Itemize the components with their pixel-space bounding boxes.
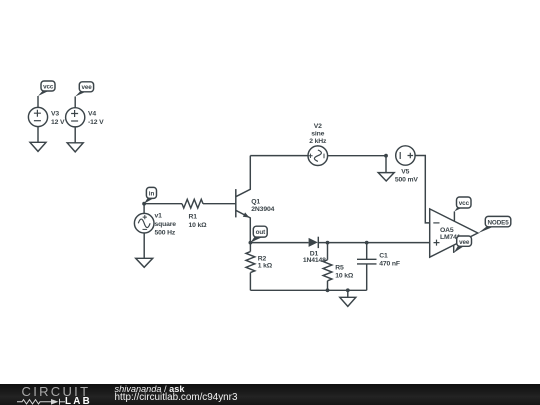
svg-text:V2: V2 xyxy=(314,123,322,130)
svg-text:v1: v1 xyxy=(155,213,163,220)
svg-text:NODE5: NODE5 xyxy=(487,219,509,226)
svg-text:12 V: 12 V xyxy=(51,119,65,126)
svg-text:470 nF: 470 nF xyxy=(379,261,400,268)
svg-text:in: in xyxy=(149,190,155,197)
svg-text:R1: R1 xyxy=(189,214,198,221)
svg-text:sine: sine xyxy=(311,130,324,137)
svg-text:1N4148: 1N4148 xyxy=(303,257,326,264)
svg-text:R5: R5 xyxy=(335,264,344,271)
svg-text:-12 V: -12 V xyxy=(88,119,104,126)
svg-text:out: out xyxy=(256,229,266,236)
svg-text:vcc: vcc xyxy=(43,83,54,90)
svg-text:500 mV: 500 mV xyxy=(395,176,419,183)
svg-text:2N3904: 2N3904 xyxy=(251,206,274,213)
svg-text:10 kΩ: 10 kΩ xyxy=(189,222,208,229)
svg-text:R2: R2 xyxy=(258,255,267,262)
svg-text:V5: V5 xyxy=(401,168,409,175)
svg-text:500 Hz: 500 Hz xyxy=(155,230,176,237)
svg-text:C1: C1 xyxy=(379,252,388,259)
svg-text:vee: vee xyxy=(81,84,92,91)
svg-text:10 kΩ: 10 kΩ xyxy=(335,273,354,280)
svg-text:vee: vee xyxy=(459,239,470,246)
svg-text:1 kΩ: 1 kΩ xyxy=(258,263,273,270)
svg-text:Q1: Q1 xyxy=(251,198,260,205)
svg-text:OA5: OA5 xyxy=(440,227,454,234)
svg-text:square: square xyxy=(155,221,177,228)
svg-text:V4: V4 xyxy=(88,111,96,118)
svg-text:2 kHz: 2 kHz xyxy=(309,138,327,145)
svg-text:V3: V3 xyxy=(51,111,59,118)
svg-text:vcc: vcc xyxy=(459,200,470,207)
